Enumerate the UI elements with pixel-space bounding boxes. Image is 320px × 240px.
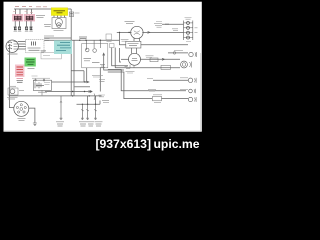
svg-text:[937x613] upic.me: [937x613] upic.me — [95, 137, 199, 151]
arrow on speedo wire — [162, 58, 165, 60]
battery faint caption above — [32, 75, 38, 77]
stub4 label — [95, 122, 103, 126]
handlebar switch stub 4 — [95, 104, 97, 119]
connector bracket mid — [94, 94, 95, 100]
CDI internals — [32, 42, 36, 46]
speedo lower text — [126, 71, 135, 73]
handlebar switch stub 2 — [81, 104, 83, 119]
spark unit label text — [54, 11, 66, 13]
battery terminals — [35, 79, 37, 81]
tail light bracket — [190, 62, 192, 68]
wire dimmer feeds — [120, 40, 189, 45]
lamp ladder rails — [184, 21, 193, 41]
battery right connector arrows — [87, 81, 92, 93]
winker lamp R — [188, 78, 192, 82]
arrow on headlight wire — [148, 31, 151, 33]
stub1 label — [56, 122, 64, 126]
condenser C1 — [69, 12, 73, 16]
spark unit label highlight — [51, 8, 67, 16]
meter lamp A bracket — [195, 52, 197, 57]
spark plug captions — [14, 31, 33, 33]
junction internals verticals — [87, 40, 101, 50]
horn circle — [10, 89, 15, 94]
junction text — [84, 59, 100, 63]
right lamp ladder comp — [165, 23, 169, 25]
wire bus B y40.2 — [44, 39, 120, 41]
ignition coil IG1 body — [14, 16, 22, 20]
connector box text — [43, 55, 50, 57]
wire vertical long x71 — [70, 9, 72, 96]
meter lamp A label — [174, 50, 183, 52]
bus junction dots — [72, 32, 130, 105]
wire bus A y38 — [44, 37, 71, 39]
wire y80 right — [153, 79, 188, 81]
wire branch y70.7 — [71, 71, 84, 82]
cyan highlight block — [54, 40, 72, 54]
spark plug 4 — [30, 27, 33, 30]
ladder lamp 3 — [187, 31, 190, 34]
ladder lamp 4 — [187, 36, 190, 39]
battery top lead — [32, 78, 50, 80]
battery plates — [35, 82, 44, 88]
wire L x111.7 — [112, 48, 128, 66]
tail light inner — [182, 63, 186, 67]
magneto caption — [8, 53, 18, 55]
dimmer switch box — [126, 41, 141, 48]
ignition coil IG1 highlight — [13, 14, 24, 21]
arrow x103.7 — [103, 53, 105, 55]
green caption below — [28, 68, 35, 70]
schematic paper — [4, 2, 202, 132]
wire L y69.5 to mid lamp — [108, 70, 186, 91]
junction internal component a — [85, 48, 89, 52]
battery label — [38, 91, 47, 93]
meter lamp A inline comp — [173, 52, 176, 55]
coil caption right — [36, 16, 45, 18]
wire L x115.2 — [114, 48, 116, 68]
stub4 contact — [94, 110, 97, 112]
spark unit inner circle — [57, 23, 62, 28]
connector bracket text — [99, 95, 106, 97]
headlight label — [125, 22, 135, 24]
ladder labels — [185, 18, 198, 42]
CDI right caption — [45, 39, 50, 41]
headlight filament — [134, 31, 140, 35]
stub ground bars — [60, 118, 97, 119]
dimmer to speedo drops — [132, 48, 137, 54]
ladder feed small text — [154, 22, 178, 31]
ignition coil IG2 body — [26, 16, 34, 20]
ground at switch — [33, 123, 37, 126]
stop switch box — [150, 58, 158, 62]
text left edge y80 — [99, 80, 105, 82]
battery inner text — [44, 83, 50, 85]
text under headlight wire — [121, 39, 129, 41]
schematic right border — [200, 53, 202, 131]
pink highlight block — [15, 65, 24, 78]
stub3 label — [87, 122, 94, 126]
spark plug leads — [15, 21, 31, 26]
handlebar switch stub 3 — [87, 104, 89, 119]
ladder lamp 1 — [187, 21, 190, 24]
wire yellow to spark unit box — [54, 16, 65, 18]
spark unit caption below box — [54, 29, 64, 31]
text above y103 right — [102, 101, 109, 103]
junction battery sym — [100, 65, 105, 68]
spark unit circle — [55, 18, 62, 25]
headlight circle — [131, 26, 143, 38]
text above y82 bus — [92, 75, 103, 77]
green highlight block — [25, 58, 36, 67]
main switch contacts — [16, 104, 26, 113]
small connector boxes right of junction — [110, 44, 115, 48]
ladder lamp 2 — [187, 26, 190, 29]
wire L x103.7 — [104, 55, 124, 71]
meter lamp A — [189, 52, 193, 56]
speedo lower connectors — [125, 65, 135, 69]
condenser caption — [75, 12, 80, 14]
wire headlight feed — [117, 32, 132, 40]
battery bottom stub — [41, 90, 43, 95]
winker lamp R bracket — [195, 78, 197, 83]
spark unit inner cross — [57, 23, 60, 26]
wire speedo left — [121, 58, 129, 60]
wire low lamp east — [162, 98, 189, 100]
pink caption below — [17, 81, 24, 83]
speedometer text — [132, 58, 138, 60]
wire headlight right — [142, 31, 183, 33]
ignition coil IG2 highlight — [24, 14, 35, 21]
wire left vertical x9.5 — [10, 44, 14, 108]
stub3 contact — [86, 110, 89, 112]
winker mid bracket — [194, 89, 196, 93]
small box under headlight wire — [106, 34, 112, 40]
fuse junction box — [82, 44, 108, 68]
headlight to dimmer drops — [134, 38, 140, 42]
wire y91.5 arrow end — [90, 91, 92, 93]
wire top bus — [14, 8, 71, 10]
winker mid label — [148, 89, 188, 91]
dimmer switch text — [128, 43, 139, 45]
horn box — [8, 88, 18, 95]
main switch label — [18, 118, 26, 120]
wire x100.3 drop — [99, 68, 101, 92]
spark plug caption — [44, 25, 51, 27]
winker relay comp — [153, 96, 162, 100]
wire speedo right — [140, 58, 180, 60]
CDI text — [28, 48, 41, 50]
winker relay label — [153, 95, 162, 103]
speedometer circle — [129, 53, 141, 65]
schematic bottom border — [4, 130, 201, 132]
wire tail lamp feeds — [115, 53, 188, 68]
black frame background — [0, 0, 204, 153]
winker R label — [180, 77, 188, 79]
text above bus A — [79, 37, 87, 39]
winker low bracket — [195, 97, 197, 102]
wire vertical x74 — [73, 40, 75, 96]
stub1 contact — [60, 101, 62, 103]
tail light outer — [181, 61, 188, 68]
left small text mid right area — [147, 78, 153, 80]
top tiny labels row 2 — [13, 12, 33, 13]
wire interbus verticals — [88, 96, 96, 104]
wire switch out to ground — [29, 108, 35, 123]
horn caption under bus — [7, 97, 18, 99]
spark plug 2 — [18, 27, 21, 30]
main switch circle — [14, 101, 29, 116]
junction internal component b — [93, 49, 97, 53]
small box text — [107, 40, 112, 42]
wire top bus drops to coils — [16, 9, 32, 15]
wire x86.7 drop — [86, 68, 88, 82]
top tiny labels row — [15, 6, 47, 8]
spark plug 3 — [25, 27, 28, 30]
wire y86.8 — [75, 86, 91, 88]
horn label right — [19, 90, 24, 92]
watermark bar — [0, 132, 204, 153]
green text rows — [26, 60, 35, 65]
pink caption red row — [17, 77, 24, 79]
spark unit box — [52, 18, 66, 29]
lamp ladder rungs — [184, 23, 193, 38]
magneto flywheel — [6, 40, 18, 52]
wire L x119.6 — [120, 48, 121, 62]
wire lamp ladder top feed — [162, 23, 184, 25]
CDI unit box — [26, 40, 44, 53]
magneto coils — [8, 42, 18, 50]
stub2 contact — [81, 110, 84, 112]
CDI side marks — [41, 51, 47, 52]
pink red text rows — [17, 67, 24, 75]
winker lamp mid — [189, 89, 193, 93]
wire switch stub bus y104.3 — [77, 101, 101, 105]
winker lamp low — [188, 97, 192, 101]
handlebar switch stub 1 — [60, 96, 62, 119]
stub2 label — [79, 122, 87, 126]
stop switch text — [146, 56, 154, 58]
battery box — [33, 80, 51, 90]
connector box below cyan — [41, 52, 61, 59]
cyan caption above — [44, 35, 54, 37]
cyan text rows — [56, 43, 71, 51]
wire y95.9 long — [9, 95, 102, 97]
horn label above — [9, 85, 16, 87]
spark plug 1 — [14, 27, 17, 30]
wire magneto outputs — [18, 42, 26, 50]
tail comp on wire — [161, 65, 171, 69]
wire battery right bus y82 — [52, 81, 89, 83]
wire y91.5 — [45, 91, 91, 93]
wire L y72 to low lamp — [108, 72, 152, 99]
